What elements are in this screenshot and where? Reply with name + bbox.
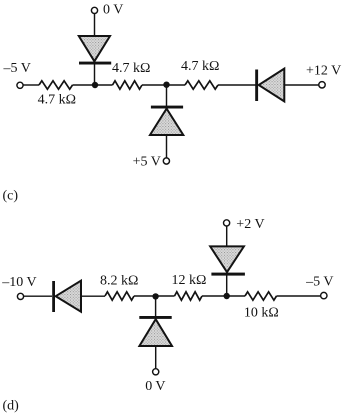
wire	[202, 295, 227, 297]
wire	[95, 84, 113, 86]
svg-text:–10 V: –10 V	[1, 275, 36, 290]
svg-text:0 V: 0 V	[103, 3, 123, 18]
terminal -5 V (d)	[321, 292, 327, 298]
svg-text:(d): (d)	[3, 398, 20, 413]
svg-text:–5 V: –5 V	[305, 275, 333, 290]
diode D5 cathode bar	[139, 316, 171, 319]
diode D2	[150, 109, 183, 135]
node C junction	[152, 293, 158, 299]
diode D1 cathode bar	[79, 62, 111, 65]
wire	[156, 295, 175, 297]
svg-text:+5 V: +5 V	[133, 155, 161, 170]
wire	[81, 295, 105, 297]
wire	[166, 85, 168, 106]
svg-text:4.7 kΩ: 4.7 kΩ	[112, 61, 150, 76]
svg-text:4.7 kΩ: 4.7 kΩ	[38, 92, 76, 107]
svg-text:+2 V: +2 V	[236, 217, 264, 232]
svg-text:12 kΩ: 12 kΩ	[172, 273, 207, 288]
wire	[142, 84, 167, 86]
wire	[226, 275, 228, 296]
resistor R2 4.7 kΩ	[113, 81, 143, 89]
wire	[94, 64, 96, 85]
diode D2 cathode bar	[151, 106, 183, 109]
diode D5	[139, 319, 172, 346]
wire	[218, 84, 256, 86]
wire	[166, 135, 168, 158]
wire	[167, 84, 186, 86]
wire	[277, 295, 321, 297]
diode D6	[210, 246, 244, 272]
wire	[227, 295, 245, 297]
node B junction	[163, 82, 169, 88]
diode D3 cathode bar	[255, 70, 258, 102]
wire	[155, 346, 157, 369]
resistor R6 10 kΩ	[245, 292, 277, 300]
diode D6 cathode bar	[211, 273, 245, 276]
node D junction	[224, 293, 230, 299]
svg-text:+12 V: +12 V	[306, 64, 341, 79]
wire	[134, 295, 156, 297]
diode D4 cathode bar	[52, 281, 55, 312]
wire	[284, 84, 319, 86]
svg-text:–5 V: –5 V	[3, 61, 31, 76]
wire	[24, 295, 52, 297]
terminal 0 V (d)	[153, 369, 159, 375]
diode D4	[56, 281, 81, 312]
resistor R3 4.7 kΩ	[185, 81, 218, 89]
diode D3	[259, 69, 285, 102]
terminal 0 V	[91, 7, 97, 13]
svg-text:10 kΩ: 10 kΩ	[244, 306, 279, 321]
diode D1	[79, 36, 110, 61]
resistor R5 12 kΩ	[175, 292, 203, 300]
wire	[73, 84, 96, 86]
terminal -10 V	[17, 293, 23, 299]
resistor R4 8.2 kΩ	[105, 292, 134, 300]
terminal +12 V	[319, 82, 325, 88]
svg-text:0 V: 0 V	[145, 379, 165, 394]
wire	[23, 84, 39, 86]
resistor R1 4.7 kΩ	[39, 81, 73, 89]
wire	[155, 296, 157, 316]
terminal -5 V	[17, 82, 23, 88]
wire	[94, 14, 96, 37]
svg-text:(c): (c)	[3, 188, 19, 203]
terminal +2 V	[224, 220, 230, 226]
node A junction	[92, 82, 98, 88]
svg-text:8.2 kΩ: 8.2 kΩ	[100, 273, 138, 288]
wire	[226, 226, 228, 246]
svg-text:4.7 kΩ: 4.7 kΩ	[181, 59, 219, 74]
terminal +5 V	[163, 158, 169, 164]
